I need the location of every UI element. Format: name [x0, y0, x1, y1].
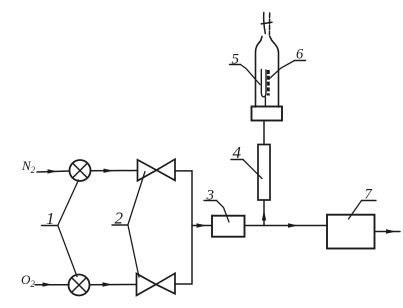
rotameter 1 bottom circle: [69, 275, 90, 296]
heater element 6 hatched strip: [267, 70, 270, 96]
mixer 3 box: [212, 216, 245, 237]
wire N2 inlet: [37, 171, 70, 172]
leader 6 to heater strip: [270, 61, 295, 79]
wire O2 inlet: [35, 284, 69, 286]
arrow before bottom valve: [103, 282, 113, 286]
svg-text:N2: N2: [21, 158, 36, 175]
U-tube stem to base: [264, 97, 266, 106]
burner lamp body right wall: [270, 37, 279, 108]
dryer 4 column: [258, 145, 270, 201]
flame crossbar: [261, 22, 272, 24]
arrow on O2 inlet: [43, 282, 53, 286]
leader 7 into detector box: [349, 201, 362, 220]
leader 1 to bottom rotameter: [58, 226, 77, 277]
label 3 shelf: [204, 200, 217, 202]
leader 2 to top valve: [128, 172, 145, 225]
label 2 shelf: [112, 224, 128, 226]
svg-text:O2: O2: [21, 272, 35, 289]
wire junction up to dryer 4: [263, 200, 265, 226]
rotameter 1 bottom X: [72, 278, 87, 293]
wire mixer 3 to detector 7: [245, 225, 328, 227]
wire collector to mixer 3: [192, 225, 212, 227]
arrow up into dryer 4: [262, 210, 266, 221]
flame left stroke: [264, 13, 266, 34]
arrow before mixer 3: [197, 223, 207, 227]
arrow on outlet: [386, 229, 396, 233]
burner base block: [252, 107, 283, 121]
arrow on N2 inlet: [48, 169, 58, 173]
leader 1 to top rotameter: [58, 180, 79, 225]
valve 2 top bowtie: [138, 159, 176, 181]
wire dryer 4 to burner base: [263, 121, 265, 145]
leader 2 to bottom valve: [128, 225, 139, 277]
leader 3 into mixer box: [217, 201, 230, 223]
wire rotameter to valve bottom: [90, 284, 137, 286]
sample U-tube 5: [261, 70, 266, 97]
label 7 shelf: [362, 200, 377, 202]
label 1 shelf: [42, 225, 59, 227]
label 4 shelf: [231, 159, 243, 161]
wire bottom valve to collector corner: [175, 226, 192, 285]
wire outlet from detector 7: [375, 231, 401, 233]
label 5 shelf: [230, 64, 241, 66]
arrow before detector 7: [288, 223, 298, 227]
label 6 shelf: [295, 60, 306, 62]
detector 7 box: [327, 215, 375, 249]
burner lamp body left wall: [256, 37, 263, 108]
rotameter 1 top circle: [70, 160, 91, 181]
wire rotameter to valve top: [91, 170, 138, 172]
wire top valve to collector corner: [175, 171, 192, 226]
arrow before top valve: [104, 169, 114, 173]
rotameter 1 top X: [73, 163, 88, 178]
flame right stroke: [268, 13, 270, 35]
leader 5 to U-tube: [241, 65, 261, 85]
valve 2 bottom bowtie: [137, 273, 176, 295]
leader 4 into dryer column: [243, 160, 262, 179]
